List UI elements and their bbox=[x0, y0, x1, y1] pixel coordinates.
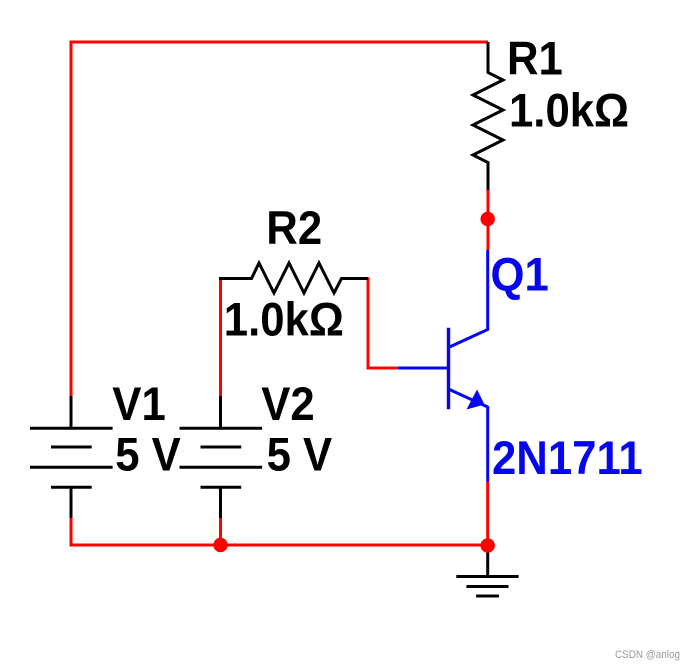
emitter diagonal bbox=[450, 390, 489, 408]
svg-text:5 V: 5 V bbox=[267, 428, 333, 481]
value R1 1.0kΩ bbox=[509, 84, 629, 137]
svg-text:CSDN @anlog: CSDN @anlog bbox=[615, 649, 680, 661]
svg-text:R2: R2 bbox=[266, 201, 322, 254]
wire: left vertical (top rail to V1 +) bbox=[70, 42, 73, 398]
label R1 bbox=[507, 32, 563, 85]
battery V1 bbox=[30, 396, 113, 518]
ground bbox=[456, 546, 518, 597]
node: junction dot V2/bottom rail bbox=[213, 538, 227, 552]
value R2 1.0kΩ bbox=[224, 293, 344, 346]
wire: base horizontal red segment bbox=[367, 367, 400, 370]
label V2 bbox=[261, 378, 314, 431]
svg-text:V2: V2 bbox=[261, 378, 314, 431]
wire: V1 - down to bottom rail bbox=[70, 517, 73, 547]
wire: bottom horizontal rail bbox=[70, 544, 488, 547]
wire: V2 - down to bottom rail bbox=[219, 517, 222, 545]
svg-text:5 V: 5 V bbox=[115, 428, 181, 481]
resistor R2 bbox=[219, 263, 368, 293]
collector diagonal bbox=[450, 329, 489, 347]
wire: emitter red segment to ground junction bbox=[486, 481, 489, 546]
svg-text:1.0kΩ: 1.0kΩ bbox=[509, 84, 629, 137]
node: junction dot ground bbox=[481, 538, 495, 552]
watermark bbox=[615, 649, 680, 661]
wire: R1 bottom to junction to Q1 collector bbox=[487, 190, 490, 250]
label V1 bbox=[112, 378, 165, 431]
wire: R2 left down to V2 + bbox=[219, 277, 222, 398]
value V1 5 V bbox=[115, 428, 181, 481]
battery V2 bbox=[180, 396, 263, 518]
svg-text:R1: R1 bbox=[507, 32, 563, 85]
wire: R2 right vertical down bbox=[367, 277, 370, 369]
svg-text:V1: V1 bbox=[112, 378, 165, 431]
label R2 bbox=[266, 201, 322, 254]
value 2N1711 bbox=[492, 431, 643, 484]
node: junction dot R1/collector bbox=[481, 212, 495, 226]
svg-text:1.0kΩ: 1.0kΩ bbox=[224, 293, 344, 346]
label Q1 bbox=[491, 248, 549, 301]
svg-text:Q1: Q1 bbox=[491, 248, 549, 301]
collector vertical lead bbox=[486, 250, 489, 331]
base bar bbox=[447, 328, 450, 409]
emitter vertical lead bbox=[486, 406, 489, 482]
value V2 5 V bbox=[267, 428, 333, 481]
transistor Q1 (NPN) bbox=[398, 250, 488, 482]
base lead bbox=[398, 367, 447, 370]
svg-text:2N1711: 2N1711 bbox=[492, 431, 643, 484]
wire: top horizontal (V1 + to R1 top) bbox=[70, 41, 489, 44]
emitter arrow bbox=[467, 390, 485, 410]
resistor R1 bbox=[473, 42, 503, 190]
